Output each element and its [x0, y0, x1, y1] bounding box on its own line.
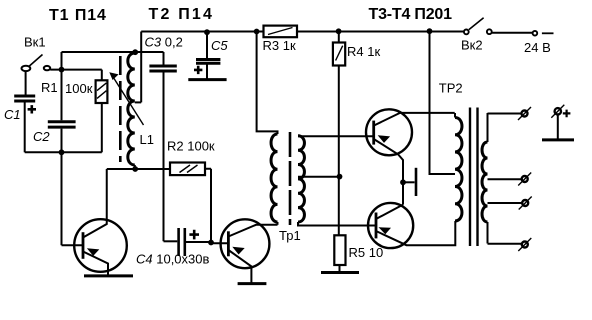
svg-text:Т1 П14: Т1 П14 [49, 7, 107, 24]
svg-text:С3 0,2: С3 0,2 [145, 34, 183, 49]
svg-text:L1: L1 [140, 132, 154, 147]
wire bottom left node [25, 151, 102, 153]
junction T2 base node [208, 240, 214, 246]
wire L1 top to node, junction [134, 52, 136, 53]
wire secondary tap 2 [488, 178, 522, 180]
wire L1 tap to rail drop [135, 101, 141, 103]
wire Vk2 to battery terminal [492, 32, 533, 34]
common bar of plus terminal [542, 138, 574, 141]
wire Vk1 left pole down to C1 [25, 71, 27, 95]
svg-text:100к: 100к [65, 81, 93, 96]
resistor R1 (with hatch marks) [96, 80, 108, 103]
junction T3/T4 emitters [400, 179, 406, 185]
svg-text:С4 10,0х30в: С4 10,0х30в [136, 251, 209, 266]
svg-text:С1: С1 [4, 107, 21, 122]
terminal output 4 [522, 242, 528, 248]
svg-text:Тр1: Тр1 [279, 228, 301, 243]
ground bar of T2 emitter [238, 282, 267, 285]
resistor R4 [333, 32, 345, 66]
wire secondary bottom lead [488, 243, 522, 245]
switch Vk2 [464, 18, 492, 35]
transistor T2 [221, 219, 278, 282]
switch Vk1 [22, 55, 51, 72]
capacitor C3 [149, 52, 176, 241]
junction C5 on rail [204, 29, 210, 35]
wire R2 right lead down [205, 169, 211, 243]
wire plus terminal to common bar [557, 115, 559, 140]
capacitor C2 [48, 122, 76, 127]
capacitor C4 (electrolytic) [164, 228, 212, 256]
terminal output 2 [522, 176, 528, 182]
plus mark of C5 [194, 66, 202, 74]
transformer Tr2 primary winding [455, 118, 462, 222]
junction at C2 bottom [59, 149, 65, 155]
capacitor C5 (electrolytic to common) [196, 32, 220, 79]
plus mark of C1 [28, 105, 36, 113]
junction Vk1/R1 node [59, 67, 65, 73]
wire T1 base feed [62, 244, 84, 246]
wire rail corner down to L1 tap [140, 32, 142, 103]
svg-text:Т2 П14: Т2 П14 [149, 6, 215, 23]
transistor T4 [368, 203, 455, 248]
svg-text:R1: R1 [41, 80, 58, 95]
svg-text:Вк1: Вк1 [24, 35, 46, 50]
common bar under C5 [188, 78, 226, 81]
transformer Tr1 secondary winding [298, 136, 304, 222]
svg-text:Вк2: Вк2 [461, 38, 483, 53]
transformer Tr1 primary top lead [257, 32, 278, 135]
plate electrode (emitter common bar) [415, 168, 418, 196]
wire T2 base feed [211, 242, 228, 244]
svg-text:R5 10: R5 10 [349, 245, 384, 260]
transformer Tr2 core (two bars) [470, 108, 478, 247]
wire emitter node to plate [403, 181, 415, 183]
wire Tr1 secondary bottom to T4 base [298, 222, 376, 226]
minus polarity dash [542, 32, 554, 34]
junction Tr1 primary on rail [254, 29, 260, 35]
wire top +24V rail [141, 31, 464, 33]
plus mark of C4 [189, 230, 199, 240]
resistor R3 [264, 26, 298, 38]
svg-text:Т3-Т4 П201: Т3-Т4 П201 [369, 6, 453, 23]
wire Vk1 right pole to R1 top [50, 70, 102, 81]
svg-text:С5: С5 [211, 38, 228, 53]
capacitor C1 [14, 96, 35, 152]
svg-text:R2 100к: R2 100к [167, 139, 215, 154]
transformer Tr1 core [289, 132, 292, 225]
svg-text:С2: С2 [33, 129, 50, 144]
wire T3 collector into Tr2 primary top [454, 113, 456, 118]
inductor L1 core (dashed) [119, 56, 122, 162]
wire rail drop to Tr2 center tap [430, 32, 456, 175]
wire left vertical bus x61 [62, 52, 164, 245]
svg-text:R3 1к: R3 1к [263, 38, 296, 53]
terminal minus 24V [533, 31, 538, 36]
junction R4 on rail [336, 28, 342, 34]
wire secondary tap 3 [488, 202, 523, 204]
terminal plus [555, 108, 561, 114]
resistor R2 (with hatch marks) [170, 163, 205, 176]
junction Tr2 tap drop on rail [427, 28, 433, 34]
wire R1 bottom lead [101, 103, 103, 152]
resistor R5 [334, 235, 345, 272]
wire secondary top lead [488, 113, 522, 115]
terminal output 3 [522, 200, 528, 206]
wire L1 bottom junction [134, 165, 136, 169]
wire Tr1 secondary top to T3 base [298, 135, 374, 137]
wire R4 bottom to tap junction to R5 [338, 66, 340, 236]
transformer Tr1 primary winding [271, 134, 277, 222]
wire Tr1 primary bottom to T2 collector [277, 222, 279, 225]
transformer Tr2 secondary winding [487, 113, 489, 244]
wire Tr1 center tap [298, 176, 340, 178]
terminal output 1 [522, 111, 528, 117]
plus mark at terminal [563, 110, 571, 118]
transistor T3 [366, 109, 455, 204]
arrow variable-core of L1 [112, 75, 144, 126]
ground bar of T1 emitter [84, 274, 133, 277]
svg-text:24 В: 24 В [524, 40, 551, 55]
wire T1 collector node y169 [107, 168, 170, 170]
junction center tap / R4-R5 [337, 174, 343, 180]
svg-text:R4 1к: R4 1к [347, 44, 380, 59]
transistor T1 [74, 169, 127, 275]
inductor L1 winding [128, 53, 135, 165]
svg-text:ТР2: ТР2 [439, 80, 463, 95]
ground bar under R5 [321, 271, 359, 274]
